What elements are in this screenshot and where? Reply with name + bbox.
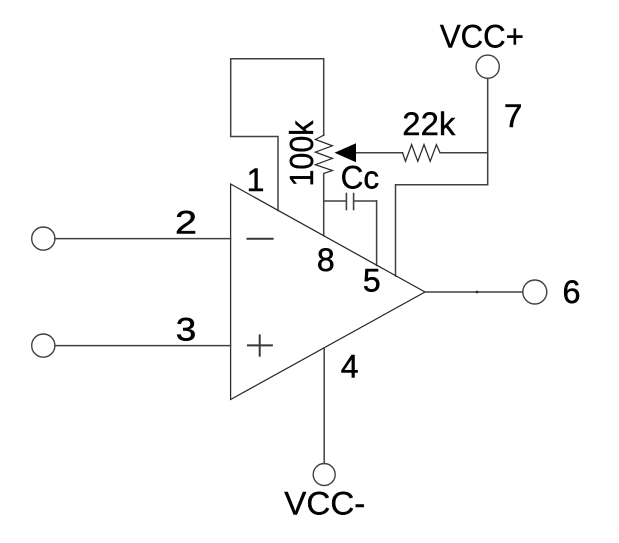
- svg-text:4: 4: [341, 349, 359, 385]
- svg-text:5: 5: [363, 262, 381, 298]
- svg-text:VCC+: VCC+: [440, 19, 524, 55]
- svg-text:3: 3: [176, 312, 197, 348]
- svg-text:6: 6: [563, 274, 581, 310]
- svg-text:2: 2: [175, 204, 197, 240]
- svg-text:Cc: Cc: [341, 160, 380, 196]
- svg-text:8: 8: [317, 242, 335, 278]
- svg-text:7: 7: [504, 98, 523, 134]
- svg-text:1: 1: [247, 162, 265, 198]
- svg-text:VCC-: VCC-: [284, 485, 365, 521]
- svg-text:22k: 22k: [402, 106, 456, 142]
- svg-text:100k: 100k: [284, 120, 321, 186]
